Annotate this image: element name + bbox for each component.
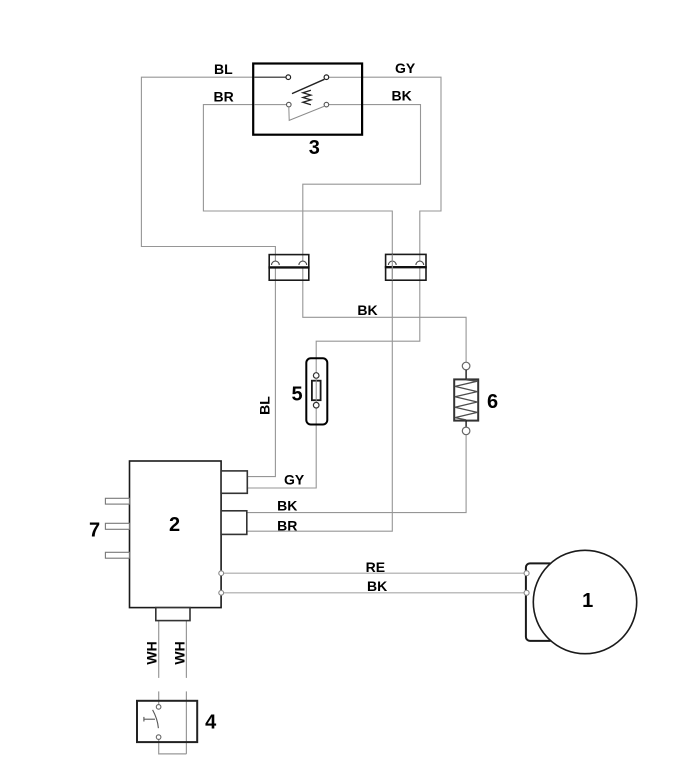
wire BK (resistor 6 bottom to unit 2 mid tab, top terminal) xyxy=(247,435,466,513)
svg-text:BK: BK xyxy=(392,88,412,104)
svg-text:WH: WH xyxy=(171,641,187,664)
svg-text:4: 4 xyxy=(205,712,217,734)
svg-text:GY: GY xyxy=(284,472,305,488)
svg-text:3: 3 xyxy=(309,137,320,159)
svg-text:BK: BK xyxy=(367,578,387,594)
svg-text:RE: RE xyxy=(366,559,385,575)
svg-text:BL: BL xyxy=(214,61,233,77)
wire BR (pass-through at right connector) xyxy=(391,254,393,280)
svg-text:6: 6 xyxy=(487,391,498,413)
wire GY (fuse 5 bottom down to unit 2 top tab, second terminal) xyxy=(247,408,316,488)
wire WH (left, unit 2 bottom tab to switch 4) xyxy=(158,621,160,705)
switch 3 top blade xyxy=(292,79,324,93)
motor 1 (with mounting tab) xyxy=(524,550,637,653)
wire BL (connector down to unit 2 top tab, first terminal) xyxy=(247,268,275,477)
wire RE (unit 2 to motor 1 top terminal) xyxy=(224,572,524,574)
svg-text:1: 1 xyxy=(582,590,593,612)
switch 4 blade xyxy=(153,710,159,728)
switch 3 (changeover switch box) xyxy=(253,64,362,135)
switch 4 (pushbutton switch box) xyxy=(137,701,197,742)
fuse 5 (fuse holder) xyxy=(306,358,327,424)
svg-text:BL: BL xyxy=(257,396,273,415)
unit 2 right-side terminals xyxy=(219,571,224,595)
svg-text:7: 7 xyxy=(89,519,100,541)
connector (left, inline 2-way) xyxy=(268,255,309,281)
switch 4 actuator xyxy=(144,718,155,720)
svg-text:5: 5 xyxy=(291,383,302,405)
wire GY (switch 3 top-right to right connector right pin) xyxy=(362,77,441,262)
switch 3 bottom blade xyxy=(289,106,324,120)
wire BK (unit 2 to motor 1 bottom terminal) xyxy=(224,592,524,594)
contact circles of switch 3 xyxy=(286,75,291,80)
wire WH (right, unit 2 bottom tab past switch 4 to bottom link) xyxy=(185,621,187,754)
wire GY (right connector down, left, through fuse 5 top) xyxy=(316,268,420,373)
svg-text:BR: BR xyxy=(214,89,234,105)
wire (switch 4 bottom terminal to right wire) xyxy=(159,740,187,754)
control unit 2 (main box) xyxy=(130,461,222,608)
unit 2 mid-right tab xyxy=(221,511,247,535)
svg-text:2: 2 xyxy=(169,514,180,536)
svg-text:BR: BR xyxy=(277,518,297,534)
svg-text:GY: GY xyxy=(395,60,416,76)
wire BL (switch 3 top-left to connector, left loop) xyxy=(141,77,275,262)
svg-text:WH: WH xyxy=(143,641,159,664)
connector (right, inline 2-way) xyxy=(385,254,427,280)
pins 7 (three spade terminals on unit 2) xyxy=(105,498,129,558)
resistor 6 xyxy=(454,362,478,435)
unit 2 bottom tab xyxy=(156,608,190,621)
svg-text:BK: BK xyxy=(357,302,377,318)
svg-text:BK: BK xyxy=(277,498,297,514)
wire BR (switch 3 bottom-left to right connector left pin, down to unit 2 mid tab) xyxy=(203,105,392,532)
unit 2 top-right tab xyxy=(221,471,247,493)
wire BK (left connector down to resistor 6 top) xyxy=(303,268,466,363)
switch 3 spring xyxy=(303,90,311,104)
wire BK (switch 3 bottom-right to left connector right pin) xyxy=(303,105,421,262)
